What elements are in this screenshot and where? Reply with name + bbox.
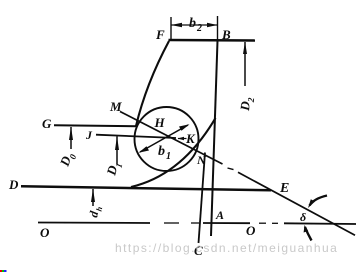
- blade edge line N to C: [199, 153, 206, 244]
- axis centerline O-O left solid: [38, 222, 150, 225]
- svg-text:B: B: [221, 27, 231, 42]
- wire b2 extension left: [170, 17, 172, 40]
- wire M-N line: [120, 112, 223, 165]
- axis dash: [164, 222, 179, 224]
- axis dash: [191, 222, 199, 224]
- svg-text:E: E: [279, 181, 289, 196]
- svg-text:F: F: [155, 27, 165, 42]
- corner artifact: [0, 270, 2, 272]
- wire top outlet line: [169, 39, 256, 42]
- wire b2 extension right: [217, 16, 219, 40]
- dimension dh arrow: [92, 189, 94, 206]
- shroud curve F: [136, 41, 169, 126]
- dimension D2 arrow: [244, 42, 246, 86]
- svg-text:1: 1: [166, 151, 171, 162]
- axis right solid: [284, 222, 356, 225]
- wire E slant line: [238, 172, 355, 235]
- angle arrow upper: [310, 196, 328, 206]
- svg-text:D: D: [8, 177, 19, 192]
- svg-text:A: A: [215, 208, 224, 222]
- outlet edge line B to A: [211, 41, 218, 236]
- label D2 rotated: [237, 96, 256, 113]
- svg-text:J: J: [85, 128, 93, 142]
- svg-text:b: b: [158, 144, 165, 159]
- label D1 rotated: [103, 160, 124, 179]
- svg-text:https://blog.csdn.net/meiguanh: https://blog.csdn.net/meiguanhua: [115, 241, 338, 255]
- inscribed circle b1: [135, 107, 199, 171]
- wire hub D line: [21, 186, 271, 190]
- svg-text:δ: δ: [300, 210, 306, 224]
- dimension D0 arrow: [70, 127, 72, 149]
- wire J line D1 surface: [96, 135, 176, 138]
- label D0 rotated: [56, 150, 78, 170]
- node K leader arrow: [178, 138, 187, 140]
- axis dash: [259, 222, 266, 224]
- svg-text:H: H: [154, 115, 166, 130]
- wire dashed continuation: [228, 168, 234, 170]
- axis dash: [272, 222, 278, 224]
- dimension D1 arrow: [116, 137, 118, 165]
- label dh rotated: [86, 204, 104, 219]
- svg-text:G: G: [42, 116, 52, 131]
- svg-text:O: O: [40, 225, 50, 240]
- axis solid mid: [203, 222, 250, 224]
- dimension b2 line: [171, 24, 218, 26]
- hub bend arc: [131, 118, 216, 187]
- svg-text:K: K: [185, 131, 196, 146]
- wire G line D0 surface: [54, 124, 137, 127]
- svg-text:2: 2: [196, 23, 202, 34]
- dimension b1 line with arrows: [140, 125, 188, 152]
- svg-text:b: b: [189, 16, 196, 31]
- angle arrow lower: [305, 227, 312, 241]
- svg-text:O: O: [246, 223, 256, 238]
